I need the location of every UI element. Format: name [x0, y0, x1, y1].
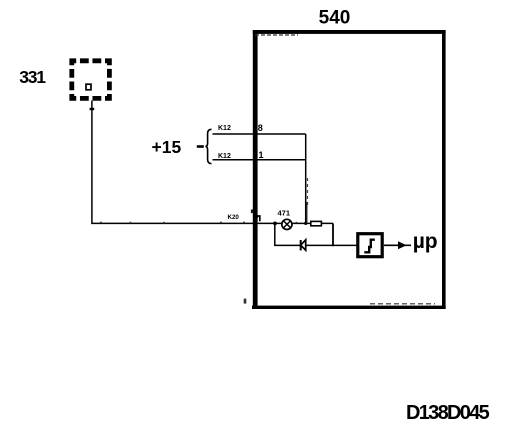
svg-text:540: 540	[319, 8, 351, 29]
wire lower branch	[275, 223, 357, 245]
wire from +15 down to lamp row	[305, 134, 307, 223]
wire lamp row	[275, 222, 333, 224]
svg-text:K12: K12	[218, 153, 231, 160]
arrowhead	[398, 241, 407, 249]
scan artifact above bottom border	[370, 303, 435, 305]
scan notch on box 540 left bar	[251, 210, 253, 214]
svg-text:K12: K12	[218, 125, 231, 132]
junction node at pin 4	[273, 222, 277, 226]
control unit box U540	[252, 30, 446, 309]
diode	[301, 240, 306, 251]
svg-text:331: 331	[19, 67, 46, 87]
lamp 471	[282, 219, 292, 229]
svg-text:+15: +15	[152, 137, 182, 157]
scan artifact under top border	[255, 34, 298, 36]
svg-text:K20: K20	[228, 214, 240, 221]
scan speck near bottom-left corner of box 540	[244, 299, 247, 304]
svg-text:1: 1	[259, 150, 264, 160]
threshold symbol	[364, 240, 375, 253]
dash after +15	[197, 145, 204, 148]
scan artifact beside +15 drop wire	[307, 178, 309, 206]
wire to microprocessor	[384, 244, 411, 246]
wire +15 lower (terminal K12)	[213, 159, 306, 161]
wire corner from resistor row down	[332, 223, 334, 246]
brace	[205, 129, 211, 163]
svg-text:D138D045: D138D045	[406, 402, 490, 424]
tick on wire	[90, 108, 95, 110]
svg-text:µp: µp	[413, 230, 438, 253]
resistor	[311, 221, 322, 225]
scan specks on K20 wire	[100, 222, 102, 224]
connector 331 (dashed box)	[72, 61, 110, 99]
pin square inside connector 331	[86, 84, 91, 90]
svg-text:471: 471	[278, 209, 291, 218]
junction node below +15 drop	[304, 222, 307, 225]
wire from connector 331 to box 540	[92, 101, 275, 224]
svg-text:8: 8	[258, 123, 263, 133]
pin 4	[257, 216, 260, 221]
wire +15 upper (terminal K12)	[213, 133, 306, 135]
threshold block	[358, 234, 382, 257]
